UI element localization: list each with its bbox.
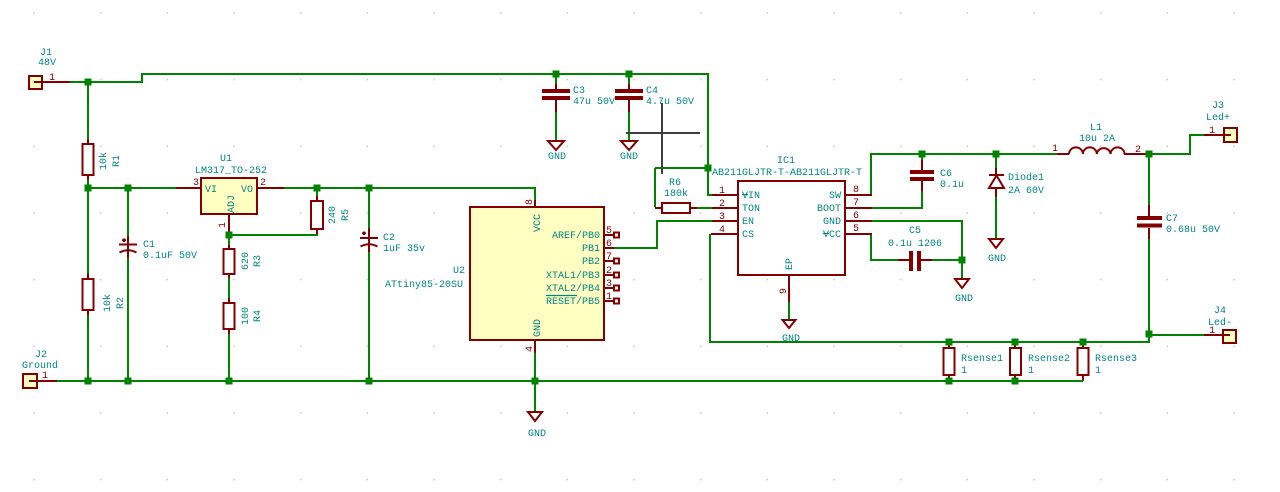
svg-text:R4: R4 xyxy=(253,310,264,322)
U2 pin 5 AREF/PB0 xyxy=(552,226,619,242)
wire R5 top stub xyxy=(316,188,318,198)
svg-text:5: 5 xyxy=(606,226,612,237)
resistor Rsense3 1 xyxy=(1078,343,1138,380)
svg-text:C5: C5 xyxy=(909,226,921,237)
svg-text:2: 2 xyxy=(606,266,612,277)
svg-text:PB2: PB2 xyxy=(582,257,600,268)
junction VIN node xyxy=(705,165,712,172)
svg-text:2: 2 xyxy=(1135,145,1141,156)
wire C4 bottom to GND xyxy=(628,111,630,141)
junction rail U2 GND xyxy=(532,378,539,385)
svg-text:3: 3 xyxy=(719,212,725,223)
ground below Diode1 xyxy=(988,239,1006,265)
microcontroller U2 ATtiny85-20SU xyxy=(385,187,604,353)
junction C5 gnd node xyxy=(959,257,966,264)
junction Rsense1 bottom xyxy=(946,378,953,385)
U2 pin 3 XTAL2/PB4 xyxy=(546,279,619,295)
svg-text:48V: 48V xyxy=(38,58,56,69)
wire bottom ground rail xyxy=(56,380,1083,382)
ground below C4 xyxy=(620,141,638,163)
svg-text:ADJ: ADJ xyxy=(227,195,238,213)
svg-text:Rsense3: Rsense3 xyxy=(1095,354,1137,365)
svg-text:GND: GND xyxy=(988,254,1006,265)
svg-text:R2: R2 xyxy=(116,297,127,309)
capacitor C5 0.1u 1206 xyxy=(888,226,942,271)
svg-text:Led+: Led+ xyxy=(1206,112,1230,124)
svg-text:0.1uF 50V: 0.1uF 50V xyxy=(143,251,197,262)
svg-text:C6: C6 xyxy=(940,169,952,180)
resistor Rsense2 1 xyxy=(1010,343,1070,380)
svg-text:C3: C3 xyxy=(573,86,585,97)
svg-text:L1: L1 xyxy=(1090,123,1102,134)
resistor R4 100 xyxy=(224,298,265,334)
wire rail to GND symbol below U2 xyxy=(534,381,536,412)
wire diode anode to GND symbol xyxy=(995,196,997,239)
svg-text:R6: R6 xyxy=(669,178,681,189)
wire C6 top stub xyxy=(921,154,923,162)
junction rail R2 xyxy=(85,378,92,385)
svg-text:Rsense2: Rsense2 xyxy=(1028,354,1070,365)
capacitor C7 0.68u 50V xyxy=(1137,205,1220,239)
svg-text:GND: GND xyxy=(782,334,800,345)
connector J1 48V xyxy=(29,48,70,89)
svg-text:XTAL1/PB3: XTAL1/PB3 xyxy=(546,270,600,282)
svg-text:AB211GLJTR-T-AB211GLJTR-T: AB211GLJTR-T-AB211GLJTR-T xyxy=(712,168,862,179)
svg-text:VI: VI xyxy=(205,185,217,196)
resistor R2 10k xyxy=(83,274,128,315)
wire C3 bottom to GND xyxy=(555,111,557,141)
resistor R6 180k xyxy=(655,178,697,213)
svg-text:2A 60V: 2A 60V xyxy=(1008,186,1044,197)
wire J1 to top rail xyxy=(66,74,708,168)
wire ADJ node horizontal to R5 xyxy=(229,230,317,235)
capacitor C3 47u 50V xyxy=(542,84,615,112)
junction C2 top node xyxy=(366,185,373,192)
svg-text:J4: J4 xyxy=(1214,306,1226,317)
junction rail C2 xyxy=(366,378,373,385)
regulator U1 LM317_TO-252 xyxy=(176,154,284,233)
capacitor C6 0.1u xyxy=(910,160,964,191)
svg-text:GND: GND xyxy=(548,152,566,163)
U2 pin 2 XTAL1/PB3 xyxy=(546,266,619,282)
wire C3 top stub xyxy=(555,74,557,85)
capacitor C2 1uF 35v xyxy=(360,228,425,255)
junction R5 top node xyxy=(314,185,321,192)
svg-text:RESET/PB5: RESET/PB5 xyxy=(546,296,600,308)
resistor R3 620 xyxy=(224,245,265,278)
wire R2 branch vertical xyxy=(87,188,89,381)
svg-text:0.1u: 0.1u xyxy=(940,180,964,191)
junction J4 node xyxy=(1146,331,1153,338)
svg-text:C4: C4 xyxy=(646,86,658,97)
wire U1 VO row to U2 VCC xyxy=(282,187,535,189)
inductor L1 10u 2A xyxy=(1052,123,1147,156)
svg-text:1: 1 xyxy=(1209,326,1215,337)
connector J2 Ground xyxy=(22,350,58,388)
svg-text:1: 1 xyxy=(42,371,48,382)
wire C1 branch upper xyxy=(127,188,129,238)
IC1 pin 2 TON xyxy=(712,199,760,215)
svg-text:J2: J2 xyxy=(35,350,47,361)
junction C6 top xyxy=(919,151,926,158)
svg-text:7: 7 xyxy=(606,252,612,263)
svg-text:47u 50V: 47u 50V xyxy=(573,97,615,108)
svg-text:BOOT: BOOT xyxy=(817,204,841,215)
svg-text:4.7u 50V: 4.7u 50V xyxy=(646,97,694,108)
svg-text:0.1u 1206: 0.1u 1206 xyxy=(888,239,942,250)
wire C4 top stub xyxy=(628,74,630,85)
wire IC1 GND pin6 to gnd node xyxy=(872,221,962,260)
wire Rsense3 column xyxy=(1082,342,1084,381)
IC1 pin 8 SW xyxy=(829,185,872,202)
svg-text:0.68u 50V: 0.68u 50V xyxy=(1166,225,1220,236)
wire C7 lower xyxy=(1148,238,1150,334)
wire mid row to U1 VI xyxy=(88,187,178,189)
IC1 pin 4 CS xyxy=(711,225,754,241)
svg-text:6: 6 xyxy=(606,239,612,250)
svg-text:GND: GND xyxy=(528,429,546,440)
wire IC1 VCC pin5 to C5 xyxy=(871,234,899,260)
wire gnd node to GND symbol xyxy=(961,260,963,279)
svg-text:1: 1 xyxy=(719,186,725,197)
svg-text:4: 4 xyxy=(719,225,725,236)
IC1 pin 5 VCC xyxy=(823,224,872,241)
svg-text:5: 5 xyxy=(853,224,859,235)
svg-text:6: 6 xyxy=(853,211,859,222)
IC IC1 AB211GLJTR-T xyxy=(712,156,862,275)
svg-text:VO: VO xyxy=(241,185,253,196)
wire L1 to J3 and C7 node xyxy=(1145,135,1204,154)
svg-text:4: 4 xyxy=(525,346,536,352)
svg-text:10u 2A: 10u 2A xyxy=(1079,134,1115,145)
svg-text:620: 620 xyxy=(241,252,252,270)
svg-text:C7: C7 xyxy=(1166,214,1178,225)
svg-text:GND: GND xyxy=(955,294,973,305)
wire IC1 SW to L1 xyxy=(871,154,1059,195)
wire J4 row xyxy=(1148,334,1150,343)
svg-text:10k: 10k xyxy=(98,152,110,170)
U2 pin 6 PB1 xyxy=(582,239,614,255)
wire Rsense2 column xyxy=(1014,342,1016,381)
capacitor C4 4.7u 50V xyxy=(615,84,694,112)
ground below C5 node xyxy=(955,279,973,305)
wire U2 PB1 to IC1 EN xyxy=(612,221,712,248)
wire C1 branch lower xyxy=(127,257,129,381)
svg-text:1: 1 xyxy=(606,292,612,303)
svg-text:R5: R5 xyxy=(341,209,352,221)
svg-text:9: 9 xyxy=(779,288,790,294)
wire R1 branch vertical xyxy=(87,82,89,188)
wire C2 branch upper xyxy=(368,188,370,230)
svg-text:1: 1 xyxy=(1095,366,1101,377)
svg-text:240: 240 xyxy=(328,206,339,224)
junction Rsense1 top xyxy=(946,339,953,346)
diode Diode1 2A 60V xyxy=(989,168,1044,197)
svg-text:7: 7 xyxy=(853,198,859,209)
svg-text:C1: C1 xyxy=(143,240,155,251)
wire U2 GND pin to rail xyxy=(534,352,536,381)
svg-text:2: 2 xyxy=(260,178,266,189)
resistor R1 10k xyxy=(83,139,124,180)
svg-text:R1: R1 xyxy=(112,155,123,167)
IC1 pin 6 GND xyxy=(823,211,872,228)
svg-text:PB1: PB1 xyxy=(582,244,600,255)
svg-text:SW: SW xyxy=(829,191,841,202)
svg-text:VCC: VCC xyxy=(823,230,841,241)
IC1 pin 1 VIN xyxy=(712,186,760,202)
junction diode top xyxy=(993,151,1000,158)
ground below C3 xyxy=(548,141,566,163)
svg-text:GND: GND xyxy=(533,319,544,337)
svg-text:U2: U2 xyxy=(453,266,465,277)
svg-text:J3: J3 xyxy=(1212,101,1224,112)
junction Rsense2 bottom xyxy=(1012,378,1019,385)
ground below U2 xyxy=(528,412,546,440)
wire C2 branch lower xyxy=(368,251,370,381)
svg-text:2: 2 xyxy=(719,199,725,210)
wire diode top stub xyxy=(995,155,997,169)
wire node row to IC1 VIN xyxy=(655,168,713,195)
svg-text:TON: TON xyxy=(742,204,760,215)
svg-text:8: 8 xyxy=(853,185,859,196)
svg-text:XTAL2/PB4: XTAL2/PB4 xyxy=(546,283,600,295)
junction C4 top xyxy=(626,71,633,78)
connector J4 Led- xyxy=(1204,306,1236,343)
resistor R5 240 xyxy=(311,196,352,234)
svg-text:10k: 10k xyxy=(102,294,114,312)
wire R6 right to TON xyxy=(696,207,712,209)
IC1 pin 7 BOOT xyxy=(817,198,872,215)
svg-text:U1: U1 xyxy=(220,154,232,165)
svg-text:AREF/PB0: AREF/PB0 xyxy=(552,230,600,242)
wire C5 right to gnd node xyxy=(931,259,962,261)
svg-text:CS: CS xyxy=(742,230,754,241)
svg-text:EN: EN xyxy=(742,217,754,228)
svg-text:8: 8 xyxy=(525,199,536,205)
wire IC1 CS to sense rail xyxy=(710,234,1149,342)
svg-text:100: 100 xyxy=(241,307,252,325)
svg-text:IC1: IC1 xyxy=(777,156,795,167)
junction L1 right node xyxy=(1146,151,1153,158)
junction Rsense2 top xyxy=(1012,339,1019,346)
capacitor C1 0.1uF 50V xyxy=(119,236,197,262)
wire R6 left vertical xyxy=(654,168,656,207)
connector J3 Led+ xyxy=(1204,101,1237,142)
cursor crosshair xyxy=(626,103,700,174)
junction Rsense3 top xyxy=(1080,339,1087,346)
svg-text:C2: C2 xyxy=(383,233,395,244)
junction rail R4 xyxy=(226,378,233,385)
U2 pin 7 PB2 xyxy=(582,252,619,268)
svg-text:1: 1 xyxy=(1052,144,1058,155)
junction ADJ node xyxy=(226,232,233,239)
svg-text:Diode1: Diode1 xyxy=(1008,172,1044,184)
svg-text:180k: 180k xyxy=(664,188,688,200)
svg-text:1: 1 xyxy=(961,366,967,377)
svg-text:1: 1 xyxy=(1209,126,1215,137)
svg-text:EP: EP xyxy=(785,258,796,270)
svg-text:1: 1 xyxy=(49,73,55,84)
svg-text:Ground: Ground xyxy=(22,360,58,372)
junction C1 top node xyxy=(125,185,132,192)
svg-text:VCC: VCC xyxy=(533,214,544,232)
wire IC1 EP to GND symbol xyxy=(788,301,790,320)
IC1 pin 9 EP xyxy=(779,258,796,302)
svg-text:1: 1 xyxy=(218,222,229,228)
svg-text:ATtiny85-20SU: ATtiny85-20SU xyxy=(385,279,463,291)
svg-text:Rsense1: Rsense1 xyxy=(961,354,1003,365)
svg-text:VIN: VIN xyxy=(742,191,760,202)
wire Rsense1 column xyxy=(948,342,950,381)
resistor Rsense1 1 xyxy=(944,343,1004,380)
U2 pin 1 RESET/PB5 xyxy=(546,292,619,308)
svg-text:3: 3 xyxy=(193,178,199,189)
svg-text:LM317_TO-252: LM317_TO-252 xyxy=(195,166,267,177)
svg-text:GND: GND xyxy=(823,217,841,228)
junction rail C1 xyxy=(125,378,132,385)
svg-text:1: 1 xyxy=(1028,366,1034,377)
ground below IC1 EP xyxy=(782,320,800,345)
svg-text:R3: R3 xyxy=(253,255,264,267)
junction R1 bottom node xyxy=(85,185,92,192)
svg-text:GND: GND xyxy=(620,152,638,163)
wire C6 bottom to BOOT xyxy=(872,190,922,208)
junction C3 top xyxy=(553,71,560,78)
svg-text:3: 3 xyxy=(606,279,612,290)
wire ADJ node vertical through R3 R4 xyxy=(228,234,230,381)
svg-text:1uF 35v: 1uF 35v xyxy=(383,244,425,255)
wire C7 upper xyxy=(1148,154,1150,206)
IC1 pin 3 EN xyxy=(712,212,754,228)
junction J1 node xyxy=(85,79,92,86)
